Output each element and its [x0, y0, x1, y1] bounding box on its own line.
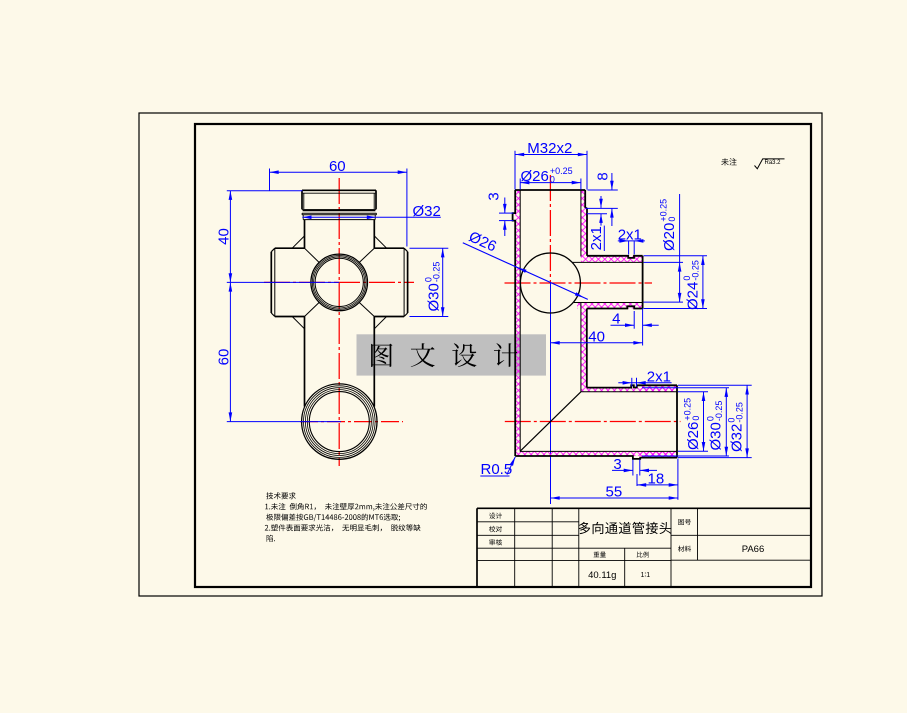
left view bottom circle ring2 — [304, 386, 376, 458]
left view center boss circle ring3 — [314, 257, 365, 308]
svg-text:R0.5: R0.5 — [481, 461, 513, 478]
svg-text:M32x2: M32x2 — [527, 140, 572, 157]
svg-text:18: 18 — [648, 471, 665, 488]
left view red horizontal centerline — [264, 281, 414, 283]
svg-text:0: 0 — [691, 416, 701, 421]
dimension diameter 24 — [644, 256, 707, 310]
dimension diameter 26 sphere leader — [463, 228, 588, 299]
dimension diameter 32 — [302, 203, 441, 220]
section outer profile — [513, 190, 677, 459]
left view neck left wall — [304, 220, 306, 249]
section blue extension vertical from center — [550, 283, 552, 504]
svg-text:2x1: 2x1 — [618, 226, 642, 243]
left view horizontal arm — [271, 248, 407, 316]
svg-text:Ø26: Ø26 — [521, 168, 549, 185]
left view fillet diagonal bottom-right — [374, 317, 386, 329]
svg-text:Ø32: Ø32 — [413, 203, 441, 220]
dimension M32x2 — [515, 140, 587, 189]
left view boss diagonal top-left — [305, 248, 320, 262]
dimension R0.5 — [480, 457, 515, 478]
left view fillet diagonal top-left — [292, 236, 304, 248]
left view bottom circle ring3 — [305, 388, 373, 456]
svg-text:Ø24: Ø24 — [684, 282, 701, 310]
svg-text:40: 40 — [588, 328, 605, 345]
technical requirements text — [265, 492, 427, 541]
left view boss diagonal top-right — [359, 248, 374, 262]
surface finish note — [721, 158, 784, 169]
left view bottom tube left wall — [304, 317, 306, 407]
svg-text:8: 8 — [595, 172, 612, 180]
title block text — [489, 513, 764, 581]
svg-text:2x1: 2x1 — [647, 368, 671, 385]
svg-text:40.11g: 40.11g — [588, 570, 616, 581]
dimension 8 — [586, 172, 618, 226]
svg-text:-0.25: -0.25 — [432, 262, 442, 283]
svg-text:-0.25: -0.25 — [735, 402, 745, 423]
left view neck right wall — [373, 220, 375, 249]
left view bottom circle ring1 — [302, 384, 377, 459]
left view top flange cap — [302, 190, 376, 210]
svg-text:0: 0 — [667, 217, 677, 222]
sheet outer border — [139, 113, 822, 596]
left view center boss circle ring4 — [315, 258, 363, 306]
svg-text:Ø30: Ø30 — [708, 422, 725, 450]
section sphere cavity circle — [520, 253, 580, 313]
dimension 40 vertical — [215, 191, 302, 283]
dimension 40 horizontal — [551, 328, 643, 345]
dimension 60 vertical — [215, 282, 341, 421]
dimension diameter 30 lower — [642, 388, 729, 456]
dimension 55 — [551, 484, 678, 501]
dimension 2x1 lower branch groove — [618, 368, 671, 386]
svg-text:Ø30: Ø30 — [426, 283, 443, 311]
svg-text:PA66: PA66 — [742, 544, 765, 555]
svg-text:2x1: 2x1 — [588, 226, 605, 250]
svg-text:4: 4 — [612, 311, 620, 328]
section inner profile — [520, 190, 677, 451]
title block grid — [477, 508, 811, 587]
section red vertical centerline — [549, 175, 551, 283]
svg-text:Ø20: Ø20 — [661, 223, 678, 251]
section hatched walls — [515, 190, 677, 458]
dimension 18 — [637, 459, 678, 500]
left view boss diagonal bottom-left — [305, 302, 320, 316]
sheet inner border — [195, 124, 811, 587]
dimension diameter 32 lower — [678, 385, 752, 457]
dimension 3 lower groove — [612, 456, 657, 476]
svg-text:Ra3.2: Ra3.2 — [765, 160, 782, 166]
svg-text:60: 60 — [215, 349, 232, 366]
section lower branch red centerline — [505, 421, 681, 423]
svg-text:-0.25: -0.25 — [690, 260, 700, 281]
left view fillet diagonal bottom-left — [292, 317, 304, 329]
watermark text — [371, 343, 518, 367]
section red horizontal centerline — [505, 282, 653, 284]
svg-text:55: 55 — [606, 484, 623, 501]
left view bottom circle ring5 — [309, 392, 369, 452]
watermark box — [357, 334, 547, 375]
dimension 2x1 right thread relief — [587, 196, 607, 251]
svg-text:60: 60 — [329, 158, 346, 175]
left view red vertical centerline — [338, 178, 340, 466]
left view bottom circle ring4 — [307, 390, 371, 454]
dimension 3 left thread relief — [486, 192, 514, 236]
svg-text:1∶1: 1∶1 — [640, 572, 650, 579]
dimension 2x1 upper branch groove — [618, 226, 645, 254]
dimension 60 top width — [270, 158, 407, 247]
svg-text:-0.25: -0.25 — [714, 401, 724, 422]
dimension 4 — [611, 309, 659, 346]
left view center boss circle ring1 — [311, 254, 368, 311]
svg-text:3: 3 — [613, 456, 621, 473]
dimension diameter 26 top — [520, 166, 581, 190]
svg-text:40: 40 — [215, 228, 232, 245]
left view boss diagonal bottom-right — [359, 302, 374, 316]
svg-text:Ø26: Ø26 — [685, 422, 702, 450]
left view flange thread band — [302, 213, 376, 219]
svg-text:3: 3 — [486, 192, 503, 200]
dimension diameter 26 lower — [678, 392, 708, 451]
left view bottom tube right wall — [373, 317, 375, 407]
svg-text:0: 0 — [550, 174, 555, 184]
left view center boss circle ring2 — [312, 256, 366, 310]
svg-text:Ø32: Ø32 — [729, 424, 746, 452]
left view bottom branch red horizontal centerline — [300, 421, 403, 423]
left view fillet diagonal top-right — [374, 236, 386, 248]
dimension diameter 30 — [410, 248, 449, 316]
dimension diameter 20 — [644, 194, 683, 302]
